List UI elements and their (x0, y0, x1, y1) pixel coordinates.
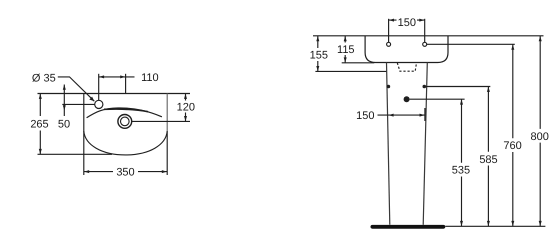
pedestal left edge (387, 63, 390, 225)
left drawing: basin top view (38, 74, 191, 175)
arrowhead 115 top (344, 36, 347, 41)
pedestal right edge (423, 63, 427, 225)
basin centre vertical extension for 110 dim (125, 74, 127, 94)
hidden trap outline (dashed) (397, 63, 416, 71)
arrowhead 115 bottom (344, 57, 347, 62)
svg-text:265: 265 (30, 118, 48, 130)
svg-text:150: 150 (356, 110, 374, 122)
tap hole circle (95, 100, 103, 108)
basin right edge (grey) (166, 94, 168, 133)
arrowhead 350 right (162, 170, 167, 173)
svg-text:535: 535 (452, 165, 470, 177)
150 top extension line right (424, 19, 426, 42)
dimension 585 line (487, 87, 489, 227)
arrowhead 150 top right (419, 19, 424, 22)
dimension 350 line (84, 171, 167, 173)
115 bottom reference line (342, 62, 375, 64)
760 extension line from basin fixing hole (427, 43, 515, 45)
basin fixing hole right (423, 42, 427, 46)
585 extension line from fixing dot (426, 86, 490, 88)
svg-text:760: 760 (503, 140, 521, 152)
arrowhead 585 bottom (487, 221, 490, 226)
dimension 50 line (63, 85, 65, 117)
dimension 800 line (539, 36, 541, 227)
arrowhead 350 left (84, 170, 89, 173)
basin left edge (83, 94, 85, 176)
tap level extension line (62, 103, 94, 105)
arrowhead 150 pedestal right (420, 114, 425, 117)
arrowhead 265 top (39, 94, 42, 99)
arrowhead 120 bottom (184, 116, 187, 121)
svg-text:120: 120 (177, 102, 195, 114)
535 extension line from bolt hole (410, 98, 465, 100)
arrowhead 760 bottom (511, 221, 514, 226)
dimension 155 line (317, 36, 319, 72)
arrowhead 535 bottom (460, 221, 463, 226)
drain hole outer circle (118, 115, 132, 129)
arrowhead 760 top (511, 45, 514, 50)
right drawing: basin with pedestal side view (313, 19, 545, 227)
svg-text:150: 150 (398, 17, 416, 29)
arrowhead 110 right (120, 75, 125, 78)
pedestal 150 right extension stub (424, 108, 426, 121)
arrowhead 155 top (316, 36, 319, 41)
dimension 150 top line (389, 19, 425, 21)
diameter 35 leader line (58, 77, 95, 101)
dimension 265 line (39, 94, 41, 155)
inner rim wave crest thickening (104, 109, 148, 112)
basin top edge line with extensions (38, 93, 191, 95)
arrowhead 110 left (99, 75, 104, 78)
arrowhead 120 top (184, 94, 187, 99)
155 bottom reference line (trap level) (315, 70, 386, 72)
arrowhead 800 bottom (539, 221, 542, 226)
arrowhead 585 top (487, 87, 490, 92)
basin right extension to 350 dim (166, 132, 168, 175)
pedestal base plate (371, 225, 446, 229)
svg-text:Ø 35: Ø 35 (32, 72, 56, 84)
inner rim wave (87, 108, 162, 118)
arrowhead 265 bottom (39, 149, 42, 154)
drain level extension line to 120 dim (132, 120, 190, 122)
svg-text:115: 115 (337, 44, 355, 56)
arrowhead 155 bottom (316, 66, 319, 71)
arrowhead 150 top left (389, 19, 394, 22)
150 top extension line left (388, 19, 390, 42)
dimension 110 line (99, 76, 135, 78)
svg-text:350: 350 (116, 166, 134, 178)
tap hole vertical extension for 110 dim (98, 74, 100, 100)
arrowhead 800 top (539, 36, 542, 41)
dimension 115 line (344, 36, 346, 63)
svg-text:155: 155 (310, 50, 328, 62)
bolt hole dot (404, 96, 410, 102)
basin bottom arc (84, 131, 167, 155)
basin top edge line with extensions to 800 dim (313, 35, 544, 37)
dimension 760 line (512, 44, 514, 226)
basin fixing hole left (387, 42, 391, 46)
svg-text:110: 110 (141, 72, 159, 84)
arrowhead 150 pedestal left (388, 114, 393, 117)
265 bottom reference line (38, 153, 113, 155)
arrowhead diameter35 leader (89, 97, 94, 102)
dimension 120 line (185, 94, 187, 122)
arrowhead 50 bottom (outside, pointing down) (63, 105, 66, 110)
drain hole inner circle (121, 117, 130, 126)
fixing dot pedestal right (423, 85, 427, 89)
dimension 535 line (461, 99, 463, 226)
arrowhead 50 top (outside, pointing up) (63, 85, 66, 90)
floor line (445, 225, 545, 227)
svg-text:50: 50 (58, 118, 70, 130)
dimension 150 pedestal line (378, 114, 425, 116)
fixing dot pedestal left (387, 85, 391, 89)
svg-text:800: 800 (531, 131, 549, 143)
arrowhead 535 top (460, 99, 463, 104)
svg-text:585: 585 (479, 154, 497, 166)
basin side-view body outline (365, 36, 448, 63)
